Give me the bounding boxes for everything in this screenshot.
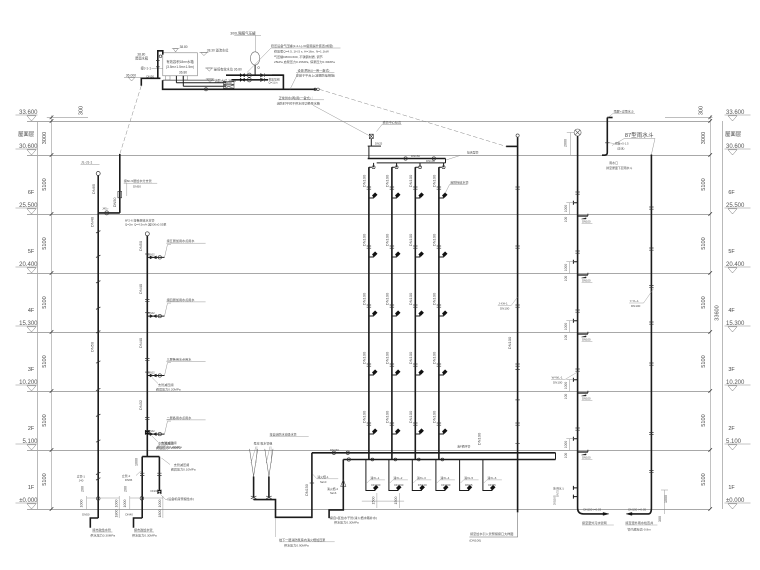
svg-text:5F: 5F (28, 249, 35, 255)
riser3 union (145, 418, 149, 420)
elev underline left (16, 325, 38, 327)
svg-text:5100: 5100 (42, 296, 48, 308)
dim tick right (708, 389, 712, 393)
elev triangle left (27, 150, 36, 155)
hydrant header upper (368, 158, 446, 160)
hydrant drop label underline (416, 479, 431, 481)
suction funnel (250, 449, 258, 477)
svg-text:最低有效水位 36.80: 最低有效水位 36.80 (214, 66, 242, 71)
hydrant branch (415, 196, 420, 198)
svg-text:供水压力0.30MPa: 供水压力0.30MPa (90, 532, 115, 537)
vessel stem mark (258, 67, 260, 69)
hydrant symbol (395, 370, 400, 375)
elev triangle left (27, 209, 36, 214)
elev triangle left (27, 445, 36, 450)
svg-text:DN100: DN100 (385, 174, 390, 187)
waste stub left (573, 201, 577, 205)
waste branch tick (587, 391, 589, 393)
tank rect (163, 53, 198, 76)
branch note underline (124, 182, 158, 184)
hydrant riser 1 jog valve (372, 166, 375, 169)
svg-text:DN32: DN32 (148, 253, 155, 256)
riser union (413, 187, 417, 189)
elev 36.000 tri (128, 77, 135, 81)
svg-text:5100: 5100 (701, 473, 707, 485)
svg-text:阀后压力0.20MPa: 阀后压力0.20MPa (157, 444, 182, 449)
svg-text:1000: 1000 (134, 458, 138, 466)
floor line 15.300 (27, 332, 710, 334)
drop dim lines (362, 493, 404, 508)
riser1 break (96, 361, 100, 363)
riser1 break (96, 255, 100, 257)
svg-text:DN100: DN100 (408, 351, 413, 364)
svg-text:接自1区给水干管(消火栖水箱补水): 接自1区给水干管(消火栖水箱补水) (330, 515, 377, 520)
float pipe union1 (156, 60, 160, 62)
manifold elbow (272, 75, 283, 89)
pump valve bowtie (240, 74, 244, 77)
rain riser union (649, 207, 653, 209)
waste label line (582, 282, 593, 284)
riser3 branch pipe (147, 375, 164, 377)
svg-text:支管减压阀: 支管减压阀 (158, 382, 173, 387)
87 text underline (625, 137, 653, 139)
svg-text:5100: 5100 (42, 473, 48, 485)
riser3 prv symbol (145, 430, 149, 434)
svg-text:DN100: DN100 (507, 336, 512, 349)
left wall line (37, 121, 39, 509)
float pipe (158, 51, 163, 78)
hydrant symbol (442, 193, 447, 198)
riser union (413, 364, 417, 366)
riser union (413, 423, 417, 425)
rain riser label underline (629, 302, 644, 304)
svg-text:DN40: DN40 (138, 337, 143, 348)
label 消火栓-1 underline (317, 478, 338, 480)
hydrant header lower (377, 162, 446, 164)
rain riser main (650, 155, 652, 509)
riser3 loop right (158, 457, 160, 491)
spec leader (247, 48, 271, 73)
riser3 branch circle (158, 374, 161, 377)
riser3 branch valve (150, 433, 156, 436)
riser XT union (515, 364, 519, 366)
note B underline (279, 99, 324, 101)
svg-text:DN100: DN100 (582, 220, 591, 224)
hydrant drop &#28040;XL-1 (366, 460, 375, 491)
suction leader1 (251, 447, 257, 464)
hydrant symbol (419, 370, 424, 375)
svg-text:(3.5m×1.5m×1.5m): (3.5m×1.5m×1.5m) (166, 65, 194, 69)
svg-text:1800: 1800 (114, 510, 118, 518)
riser union (437, 246, 441, 248)
elev triangle right (728, 386, 737, 391)
waste arrow (582, 277, 587, 278)
svg-text:5100: 5100 (701, 296, 707, 308)
hydrant riser 4 bottom valve (441, 458, 444, 461)
svg-text:5100: 5100 (42, 355, 48, 367)
fire level marker (206, 79, 214, 83)
svg-text:1000: 1000 (564, 205, 568, 213)
svg-text:DN100: DN100 (432, 351, 437, 364)
waste outfall underline (582, 524, 614, 526)
rain riser union (649, 286, 653, 288)
svg-text:300: 300 (79, 106, 85, 115)
svg-text:DN100: DN100 (408, 233, 413, 246)
svg-text:DN100: DN100 (582, 456, 591, 460)
hydrant drop &#28040;XL-5 (460, 460, 469, 491)
svg-text:DN100: DN100 (362, 292, 367, 305)
suction note2 underline (270, 435, 309, 437)
riser1 break (96, 388, 100, 390)
svg-text:地-降水斗: 地-降水斗 (553, 486, 565, 490)
riser union (437, 423, 441, 425)
riser union (367, 364, 371, 366)
waste dim lines (566, 321, 574, 332)
riser1 top circle (96, 172, 100, 176)
hydrant branch (415, 255, 420, 257)
tank level marker top (172, 49, 179, 52)
riser1 upper (97, 176, 99, 213)
pump circle (247, 78, 251, 82)
floor line 20.400 (27, 273, 710, 275)
hydrant riser 1 bottom valve (371, 458, 374, 461)
hydrant branch (369, 373, 374, 375)
svg-text:DN50: DN50 (89, 341, 94, 352)
svg-text:DN100: DN100 (408, 174, 413, 187)
riser union (390, 423, 394, 425)
hydrant branch (439, 255, 444, 257)
elev underline right (725, 266, 751, 268)
dim tick left (50, 271, 54, 275)
svg-text:二层各用水点用水: 二层各用水点用水 (167, 415, 193, 420)
svg-text:正常供水(两)用(一备式)｜: 正常供水(两)用(一备式)｜ (279, 95, 314, 100)
svg-text:1000: 1000 (123, 500, 127, 508)
svg-text:供水压力0.30MPa: 供水压力0.30MPa (132, 532, 157, 537)
hydrant symbol (442, 252, 447, 257)
hydrant drop symbol (373, 485, 378, 490)
discharge A tick (310, 482, 314, 484)
dim tick right (708, 271, 712, 275)
hydrant note underline (450, 184, 468, 186)
rain bottom dims (661, 490, 668, 514)
svg-text:阀后压力0.10MPa: 阀后压力0.10MPa (171, 467, 196, 472)
riser2 from tank (119, 154, 121, 213)
svg-text:DN32: DN32 (148, 312, 155, 315)
pump circle (247, 73, 251, 77)
float pipe union2 (156, 66, 160, 68)
riser3 branch pipe (147, 315, 164, 317)
riser1 break (96, 414, 100, 416)
svg-text:J-XH-1: J-XH-1 (498, 302, 508, 306)
tank support left (166, 76, 171, 80)
hydrant branch (392, 196, 397, 198)
svg-text:1F: 1F (28, 485, 35, 491)
svg-text:DN100: DN100 (408, 292, 413, 305)
hydrant branch (369, 255, 374, 257)
riser3 union (145, 359, 149, 361)
svg-text:DN65: DN65 (91, 183, 96, 194)
waste branch tick (587, 450, 589, 452)
riser XT top circle (516, 134, 519, 137)
svg-text:DN50: DN50 (82, 512, 90, 516)
hydrant drop leader (367, 480, 370, 483)
svg-text:1500: 1500 (394, 497, 398, 505)
svg-text:接市政给水管: 接市政给水管 (134, 527, 153, 532)
vessel leader (255, 35, 257, 51)
hydrant drop symbol (490, 485, 495, 490)
rain riser union (649, 432, 653, 434)
header valve 1 (404, 157, 407, 160)
rain riser union (649, 322, 653, 324)
svg-text:2F: 2F (28, 426, 35, 432)
header valve 2 (432, 157, 435, 160)
svg-text:消F栖环管: 消F栖环管 (457, 444, 470, 449)
riser1 bottom elbow (90, 518, 98, 528)
bottom header valve3 (347, 458, 350, 461)
hydrant branch (369, 196, 374, 198)
waste label line (582, 459, 593, 461)
rain leader cap (607, 117, 612, 119)
svg-text:泵房 吸水管组: 泵房 吸水管组 (254, 440, 273, 445)
tank base line (163, 79, 215, 81)
elev triangle right (728, 445, 737, 450)
riser1 dim lines (87, 496, 120, 518)
svg-text:87型雨水斗: 87型雨水斗 (625, 131, 654, 139)
svg-text:5100: 5100 (42, 414, 48, 426)
suction stem2 (268, 498, 270, 501)
svg-text:5100: 5100 (42, 237, 48, 249)
dim line right (710, 116, 712, 510)
hydrant riser 2 jog (392, 163, 397, 460)
svg-text:DN100: DN100 (432, 292, 437, 305)
foot valve (266, 496, 272, 499)
pump pipe lower (232, 79, 269, 81)
hydrant drop label underline (370, 479, 385, 481)
dim tick left (50, 389, 54, 393)
waste dim lines (566, 439, 574, 450)
svg-text:接四层加用水点用水: 接四层加用水点用水 (167, 297, 196, 302)
elev underline left (16, 443, 38, 445)
svg-text:J45○: J45○ (102, 206, 109, 210)
rain leader tick (605, 142, 609, 144)
riser1 break (96, 231, 100, 233)
riser XT union (515, 305, 519, 307)
dim tick left (50, 119, 54, 123)
loop prv right (158, 490, 162, 494)
riser3 branch valve (150, 374, 156, 377)
dim tick right (708, 330, 712, 334)
hydrant drop label underline (464, 479, 479, 481)
rain riser union (649, 363, 653, 365)
elev underline right (725, 502, 751, 504)
waste break (575, 369, 579, 371)
air vent cap (368, 145, 381, 147)
hydrant branch (392, 432, 397, 434)
check valve (261, 78, 265, 82)
hydrant riser 4 jog (439, 163, 444, 460)
hydrant branch (369, 432, 374, 434)
svg-text:100: 100 (564, 217, 568, 223)
svg-text:DN100: DN100 (426, 159, 435, 163)
rain side leader (610, 142, 615, 145)
svg-text:3000: 3000 (42, 132, 48, 144)
svg-text:DN150 i=0.03: DN150 i=0.03 (583, 507, 601, 511)
svg-text:消XL-3: 消XL-3 (417, 475, 426, 480)
elev 36.000 line (124, 76, 141, 78)
svg-text:消XL-5: 消XL-5 (464, 475, 473, 480)
discharge pipe A (311, 453, 313, 518)
svg-text:DN100: DN100 (631, 304, 641, 308)
svg-text:DN65: DN65 (125, 478, 133, 482)
header elev underline (382, 124, 402, 126)
parapet line right (665, 117, 713, 119)
svg-text:5100: 5100 (42, 178, 48, 190)
riser2b city underline (134, 531, 154, 533)
hydrant riser 4 jog valve (442, 166, 445, 169)
svg-text:200: 200 (124, 486, 128, 492)
svg-text:DN150: DN150 (305, 484, 309, 496)
svg-text:稳压泵Q=4.5, 1H.5 s, H=16m, N=1.1: 稳压泵Q=4.5, 1H.5 s, H=16m, N=1.1kW (274, 49, 329, 54)
svg-text:屋面水箱: 屋面水箱 (135, 56, 149, 61)
foot valve (251, 496, 257, 499)
vent drop (368, 146, 370, 158)
svg-text:DN65: DN65 (488, 483, 496, 487)
svg-text:1000: 1000 (664, 495, 668, 503)
waste branch right (578, 274, 588, 276)
vent cap cross (575, 130, 580, 135)
label leader A (313, 474, 317, 479)
spec underline (271, 47, 341, 49)
riser2b elbow (134, 518, 143, 528)
87 leader to leader (612, 138, 625, 145)
vessel stem (254, 65, 256, 75)
svg-text:DN50: DN50 (113, 198, 117, 208)
svg-text:6F: 6F (28, 190, 35, 196)
waste branch right (578, 215, 588, 217)
junction pipe (98, 212, 120, 214)
riser XT main (517, 137, 519, 512)
elev underline left (16, 384, 38, 386)
hydrant symbol (419, 429, 424, 434)
riser XT union (515, 423, 519, 425)
svg-text:设置(两台)(一用一备式): 设置(两台)(一用一备式) (298, 68, 330, 73)
riser1 break (96, 307, 100, 309)
svg-text:DN100: DN100 (362, 351, 367, 364)
riser XT union (515, 246, 519, 248)
riser3 branch leader (165, 363, 172, 376)
waste dim lines (566, 262, 574, 273)
dim tick right (708, 119, 712, 123)
hydrant symbol (442, 429, 447, 434)
svg-text:100: 100 (564, 453, 568, 459)
rain outfall arrow (626, 512, 632, 515)
riser3 loop top (142, 456, 159, 458)
riser3 branch note underline (166, 301, 205, 303)
svg-text:1000: 1000 (564, 441, 568, 449)
elev triangle right (728, 150, 737, 155)
suction pipe 3 (163, 80, 316, 89)
svg-text:3000: 3000 (701, 132, 707, 144)
dim line left (51, 116, 53, 510)
svg-text:2000: 2000 (564, 139, 568, 147)
riser union (367, 187, 371, 189)
elev underline right (725, 325, 751, 327)
vessel label underline (234, 34, 261, 36)
hydrant symbol (419, 311, 424, 316)
hydrant drop symbol (467, 485, 472, 490)
hydrant riser 2 bottom valve (394, 458, 397, 461)
svg-text:DN150: DN150 (330, 448, 339, 452)
riser3 union (145, 300, 149, 302)
svg-text:接至给水引入管预留接口大样图: 接至给水引入管预留接口大样图 (470, 531, 513, 536)
svg-text:DN25: DN25 (375, 141, 383, 145)
riser1 bottom valve (96, 497, 100, 501)
svg-text:1500: 1500 (372, 497, 376, 505)
hydrant note leader (445, 185, 450, 194)
svg-text:№10: №10 (320, 480, 327, 484)
suction leader2 (266, 447, 271, 464)
riser3 branch note underline (166, 360, 205, 362)
hydrant drop &#28040;XL-3 (412, 460, 421, 491)
svg-text:38.80: 38.80 (180, 45, 188, 49)
hydrant drop leader (413, 480, 416, 483)
hydrant drop label underline (440, 479, 455, 481)
flange pair (314, 88, 317, 91)
elev triangle right (728, 116, 737, 121)
svg-text:3F: 3F (28, 367, 35, 373)
svg-text:1000: 1000 (158, 500, 162, 508)
riser2b dims (130, 496, 163, 518)
svg-text:W-WL-1: W-WL-1 (552, 375, 563, 379)
elev triangle left (27, 386, 36, 391)
riser3 top circle (145, 232, 149, 236)
svg-text:100: 100 (564, 394, 568, 400)
svg-text:DN100: DN100 (385, 292, 390, 305)
svg-text:1000: 1000 (80, 500, 84, 508)
svg-text:1000: 1000 (564, 323, 568, 331)
hydrant branch (392, 255, 397, 257)
svg-text:1000: 1000 (114, 500, 118, 508)
svg-text:消防时平时不供水时切换至水箱: 消防时平时不供水时切换至水箱 (277, 100, 320, 105)
pump valve bowtie (240, 78, 244, 81)
rain riser union (649, 248, 653, 250)
87 leader to riser (651, 138, 655, 154)
riser1 break (96, 440, 100, 442)
svg-text:300: 300 (658, 516, 662, 522)
waste outfall arrow (603, 512, 609, 515)
svg-text:DN100: DN100 (477, 432, 482, 445)
hydrant branch (439, 196, 444, 198)
floor line &#177;0.000 (27, 509, 710, 511)
leader dashed to JL riser (120, 86, 142, 154)
bottom header upper (312, 452, 556, 454)
riser3 branch circle (158, 256, 161, 259)
svg-text:气压罐D800×600, 不锈钢材质, 调节: 气压罐D800×600, 不锈钢材质, 调节 (274, 54, 323, 59)
riser union (390, 364, 394, 366)
svg-text:J40: J40 (79, 479, 84, 483)
hydrant branch (439, 314, 444, 316)
hydrant symbol (395, 252, 400, 257)
svg-text:DN100: DN100 (553, 380, 563, 384)
hydrant drop label underline (487, 479, 502, 481)
riser1 break (96, 331, 100, 333)
svg-text:接市政给水管: 接市政给水管 (92, 527, 111, 532)
hydrant symbol (395, 193, 400, 198)
svg-text:5100: 5100 (701, 178, 707, 190)
svg-text:DN50: DN50 (138, 240, 143, 251)
svg-text:DN100: DN100 (385, 410, 390, 423)
tank inlet leader (152, 67, 163, 69)
